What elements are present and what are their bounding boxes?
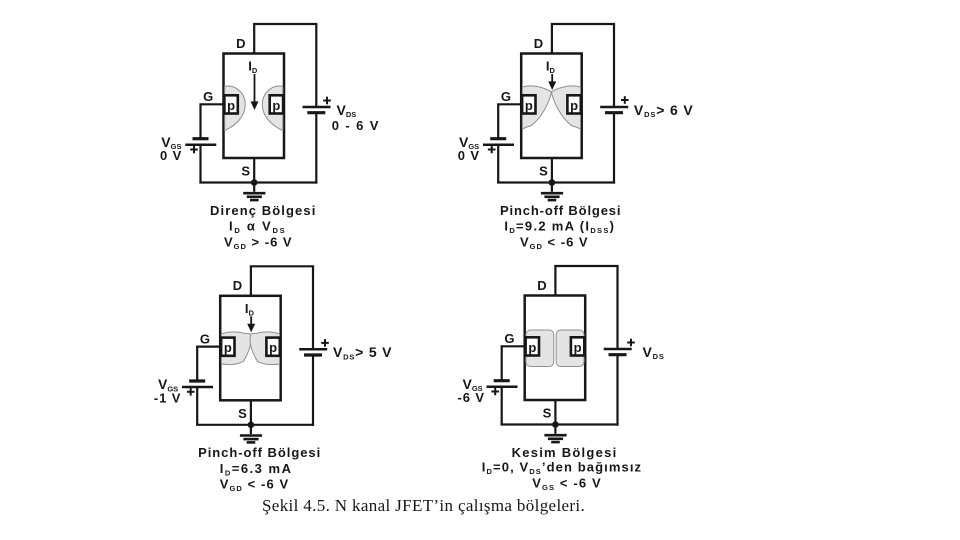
label region condition Q1 bbox=[224, 234, 293, 251]
wire battery VGS to source bus Q4 bbox=[501, 387, 503, 425]
wire battery VDS drop Q2 bbox=[613, 24, 615, 107]
label region condition Q2 bbox=[520, 234, 589, 251]
wire battery VGS to source bus Q3 bbox=[196, 387, 198, 425]
svg-text:D: D bbox=[537, 278, 546, 293]
wire gate to battery VGS Q4 bbox=[501, 346, 503, 380]
svg-text:G: G bbox=[501, 89, 511, 104]
svg-text:Kesim Bölgesi: Kesim Bölgesi bbox=[512, 445, 618, 460]
node S terminal label Q4 bbox=[543, 406, 552, 421]
svg-text:p: p bbox=[528, 340, 536, 355]
wire gate to battery VGS Q1 bbox=[199, 104, 201, 138]
svg-text:G: G bbox=[203, 89, 213, 104]
p-region left gate Q2 bbox=[522, 95, 535, 113]
wire source stub Q2 bbox=[551, 158, 553, 183]
label VGS Q1 value bbox=[160, 134, 182, 163]
depletion region Q4 bbox=[526, 330, 584, 367]
label VGS Q2 value bbox=[458, 134, 480, 163]
node D terminal label Q3 bbox=[233, 278, 242, 293]
wire source bus Q1 bbox=[199, 181, 317, 183]
svg-text:G: G bbox=[200, 332, 210, 347]
wire gate horizontal Q3 bbox=[196, 346, 220, 348]
svg-text:VDS: VDS bbox=[643, 344, 665, 361]
wire gate horizontal Q4 bbox=[501, 345, 525, 347]
p-region right gate Q3 bbox=[266, 338, 279, 356]
label VGS Q3 value bbox=[154, 376, 181, 405]
ground Q4 bbox=[544, 425, 566, 443]
p-region left gate Q1 bbox=[224, 95, 237, 113]
label VDS Q2 value bbox=[634, 102, 694, 119]
p-region right gate Q4 bbox=[571, 337, 584, 355]
svg-text:p: p bbox=[224, 340, 232, 355]
label region formula Q1 bbox=[229, 218, 286, 235]
wire top horizontal Q4 bbox=[554, 265, 618, 267]
label VDS Q1 value bbox=[332, 102, 380, 133]
current arrow ID Q2 bbox=[548, 74, 556, 90]
svg-text:p: p bbox=[272, 98, 280, 113]
JFET Q2 channel body bbox=[521, 54, 582, 159]
svg-text:VGD > -6 V: VGD > -6 V bbox=[224, 234, 293, 251]
svg-text:0 V: 0 V bbox=[458, 148, 480, 163]
svg-text:D: D bbox=[233, 278, 242, 293]
label current ID Q1 bbox=[248, 59, 258, 76]
wire source stub Q1 bbox=[253, 158, 255, 183]
svg-text:ID=9.2 mA (IDSS): ID=9.2 mA (IDSS) bbox=[504, 218, 615, 235]
wire gate horizontal Q1 bbox=[199, 103, 223, 105]
ground Q3 bbox=[240, 425, 262, 443]
wire top horizontal Q3 bbox=[250, 265, 314, 267]
label region condition Q3 bbox=[220, 477, 290, 494]
node S terminal label Q3 bbox=[238, 406, 247, 421]
depletion region Q3 bbox=[221, 332, 279, 365]
p-region right gate Q2 bbox=[567, 95, 580, 113]
depletion region Q1 bbox=[225, 86, 283, 130]
ground Q2 bbox=[541, 183, 563, 201]
label current ID Q3 bbox=[245, 301, 255, 318]
svg-text:Direnç Bölgesi: Direnç Bölgesi bbox=[210, 203, 316, 218]
battery VGS Q4 bbox=[487, 381, 518, 396]
wire battery VDS drop Q3 bbox=[312, 266, 314, 349]
label VGS Q4 value bbox=[458, 376, 485, 405]
svg-text:VDS: VDS bbox=[337, 102, 357, 119]
label region formula Q3 bbox=[220, 461, 293, 478]
node S junction Q3 bbox=[248, 422, 255, 429]
label VDS Q4 value bbox=[643, 344, 665, 361]
label region title Q2 bbox=[500, 203, 621, 218]
svg-text:p: p bbox=[227, 98, 235, 113]
node S junction Q4 bbox=[552, 421, 559, 428]
label VDS Q3 value bbox=[333, 344, 392, 361]
node S junction Q1 bbox=[251, 179, 258, 186]
label region formula Q4 bbox=[482, 459, 642, 476]
wire battery VDS to source bus Q4 bbox=[616, 355, 618, 426]
node D terminal label Q1 bbox=[236, 36, 245, 51]
label region formula Q2 bbox=[504, 218, 615, 235]
node S terminal label Q2 bbox=[539, 164, 548, 179]
svg-text:ID=6.3 mA: ID=6.3 mA bbox=[220, 461, 293, 478]
ground Q1 bbox=[243, 183, 265, 201]
battery VDS Q1 bbox=[303, 97, 331, 113]
wire source bus Q3 bbox=[196, 424, 314, 426]
figure caption bbox=[262, 496, 585, 515]
wire battery VDS drop Q4 bbox=[616, 266, 618, 349]
wire battery VGS to source bus Q2 bbox=[497, 145, 499, 183]
JFET Q4 channel body bbox=[525, 296, 586, 401]
p-region left gate Q4 bbox=[526, 337, 539, 355]
wire top horizontal Q2 bbox=[551, 23, 615, 25]
svg-text:Pinch-off Bölgesi: Pinch-off Bölgesi bbox=[500, 203, 621, 218]
svg-text:S: S bbox=[543, 406, 552, 421]
svg-text:S: S bbox=[539, 164, 548, 179]
current arrow ID Q1 bbox=[251, 74, 259, 110]
wire drain vertical Q2 bbox=[551, 24, 553, 55]
wire gate to battery VGS Q3 bbox=[196, 347, 198, 381]
svg-text:Şekil 4.5. N kanal JFET’in çal: Şekil 4.5. N kanal JFET’in çalışma bölge… bbox=[262, 496, 585, 515]
node D terminal label Q4 bbox=[537, 278, 546, 293]
svg-text:VGD < -6 V: VGD < -6 V bbox=[220, 477, 290, 494]
wire battery VGS to source bus Q1 bbox=[199, 145, 201, 183]
label region title Q3 bbox=[198, 445, 321, 460]
svg-text:0 - 6 V: 0 - 6 V bbox=[332, 118, 380, 133]
svg-text:VGS < -6 V: VGS < -6 V bbox=[532, 475, 602, 492]
svg-text:Pinch-off Bölgesi: Pinch-off Bölgesi bbox=[198, 445, 321, 460]
wire drain vertical Q4 bbox=[554, 266, 556, 297]
wire battery VDS to source bus Q3 bbox=[312, 355, 314, 426]
node D terminal label Q2 bbox=[534, 36, 543, 51]
svg-text:p: p bbox=[570, 98, 578, 113]
svg-text:S: S bbox=[241, 164, 250, 179]
svg-text:p: p bbox=[525, 98, 533, 113]
node S junction Q2 bbox=[549, 179, 556, 186]
svg-text:S: S bbox=[238, 406, 247, 421]
battery VDS Q2 bbox=[600, 96, 628, 113]
label region title Q4 bbox=[512, 445, 618, 460]
current arrow ID Q3 bbox=[247, 316, 255, 332]
battery VGS Q2 bbox=[483, 139, 514, 154]
wire top horizontal Q1 bbox=[253, 23, 317, 25]
wire battery VDS drop Q1 bbox=[315, 24, 317, 107]
wire source stub Q3 bbox=[250, 400, 252, 425]
label region title Q1 bbox=[210, 203, 316, 218]
svg-text:-6 V: -6 V bbox=[458, 390, 485, 405]
p-region right gate Q1 bbox=[270, 95, 283, 113]
battery VDS Q3 bbox=[299, 339, 329, 355]
label region condition Q4 bbox=[532, 475, 602, 492]
node G terminal label Q1 bbox=[203, 89, 213, 104]
depletion region Q2 bbox=[522, 86, 580, 129]
svg-text:ID=0, VDS’den bağımsız: ID=0, VDS’den bağımsız bbox=[482, 459, 642, 476]
wire gate to battery VGS Q2 bbox=[497, 104, 499, 138]
wire drain vertical Q1 bbox=[253, 24, 255, 55]
wire source bus Q4 bbox=[501, 423, 619, 425]
wire source bus Q2 bbox=[497, 181, 615, 183]
node G terminal label Q2 bbox=[501, 89, 511, 104]
label current ID Q2 bbox=[546, 59, 556, 76]
p-region left gate Q3 bbox=[221, 338, 234, 356]
svg-text:D: D bbox=[236, 36, 245, 51]
battery VDS Q4 bbox=[604, 339, 635, 355]
svg-text:D: D bbox=[534, 36, 543, 51]
svg-text:G: G bbox=[504, 331, 514, 346]
battery VGS Q3 bbox=[182, 381, 213, 396]
svg-text:VDS> 6 V: VDS> 6 V bbox=[634, 102, 694, 119]
node G terminal label Q3 bbox=[200, 332, 210, 347]
wire battery VDS to source bus Q2 bbox=[613, 113, 615, 184]
svg-text:VDS> 5 V: VDS> 5 V bbox=[333, 344, 392, 361]
battery VGS Q1 bbox=[185, 139, 216, 154]
svg-text:-1 V: -1 V bbox=[154, 390, 181, 405]
svg-text:0 V: 0 V bbox=[160, 148, 182, 163]
wire battery VDS to source bus Q1 bbox=[315, 113, 317, 184]
wire drain vertical Q3 bbox=[250, 266, 252, 297]
node S terminal label Q1 bbox=[241, 164, 250, 179]
wire source stub Q4 bbox=[554, 400, 556, 425]
JFET Q3 channel body bbox=[220, 296, 281, 401]
svg-text:p: p bbox=[574, 340, 582, 355]
JFET Q1 channel body bbox=[224, 54, 285, 159]
wire gate horizontal Q2 bbox=[497, 103, 521, 105]
svg-text:ID α VDS: ID α VDS bbox=[229, 218, 286, 235]
svg-text:p: p bbox=[269, 340, 277, 355]
node G terminal label Q4 bbox=[504, 331, 514, 346]
svg-text:VGD < -6 V: VGD < -6 V bbox=[520, 234, 589, 251]
